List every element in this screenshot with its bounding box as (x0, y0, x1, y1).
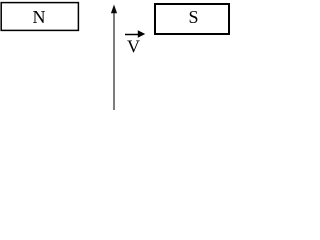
svg-text:S: S (188, 7, 198, 27)
velocity arrowhead (138, 30, 145, 38)
svg-text:V: V (127, 36, 140, 56)
svg-text:N: N (33, 7, 46, 27)
magnet pole box N (1, 3, 78, 31)
arrowhead of upward arrow (111, 5, 117, 14)
wire: vertical shaft of upward arrow (113, 13, 115, 111)
velocity arrow shaft (125, 34, 139, 36)
magnet pole box S (155, 4, 229, 34)
